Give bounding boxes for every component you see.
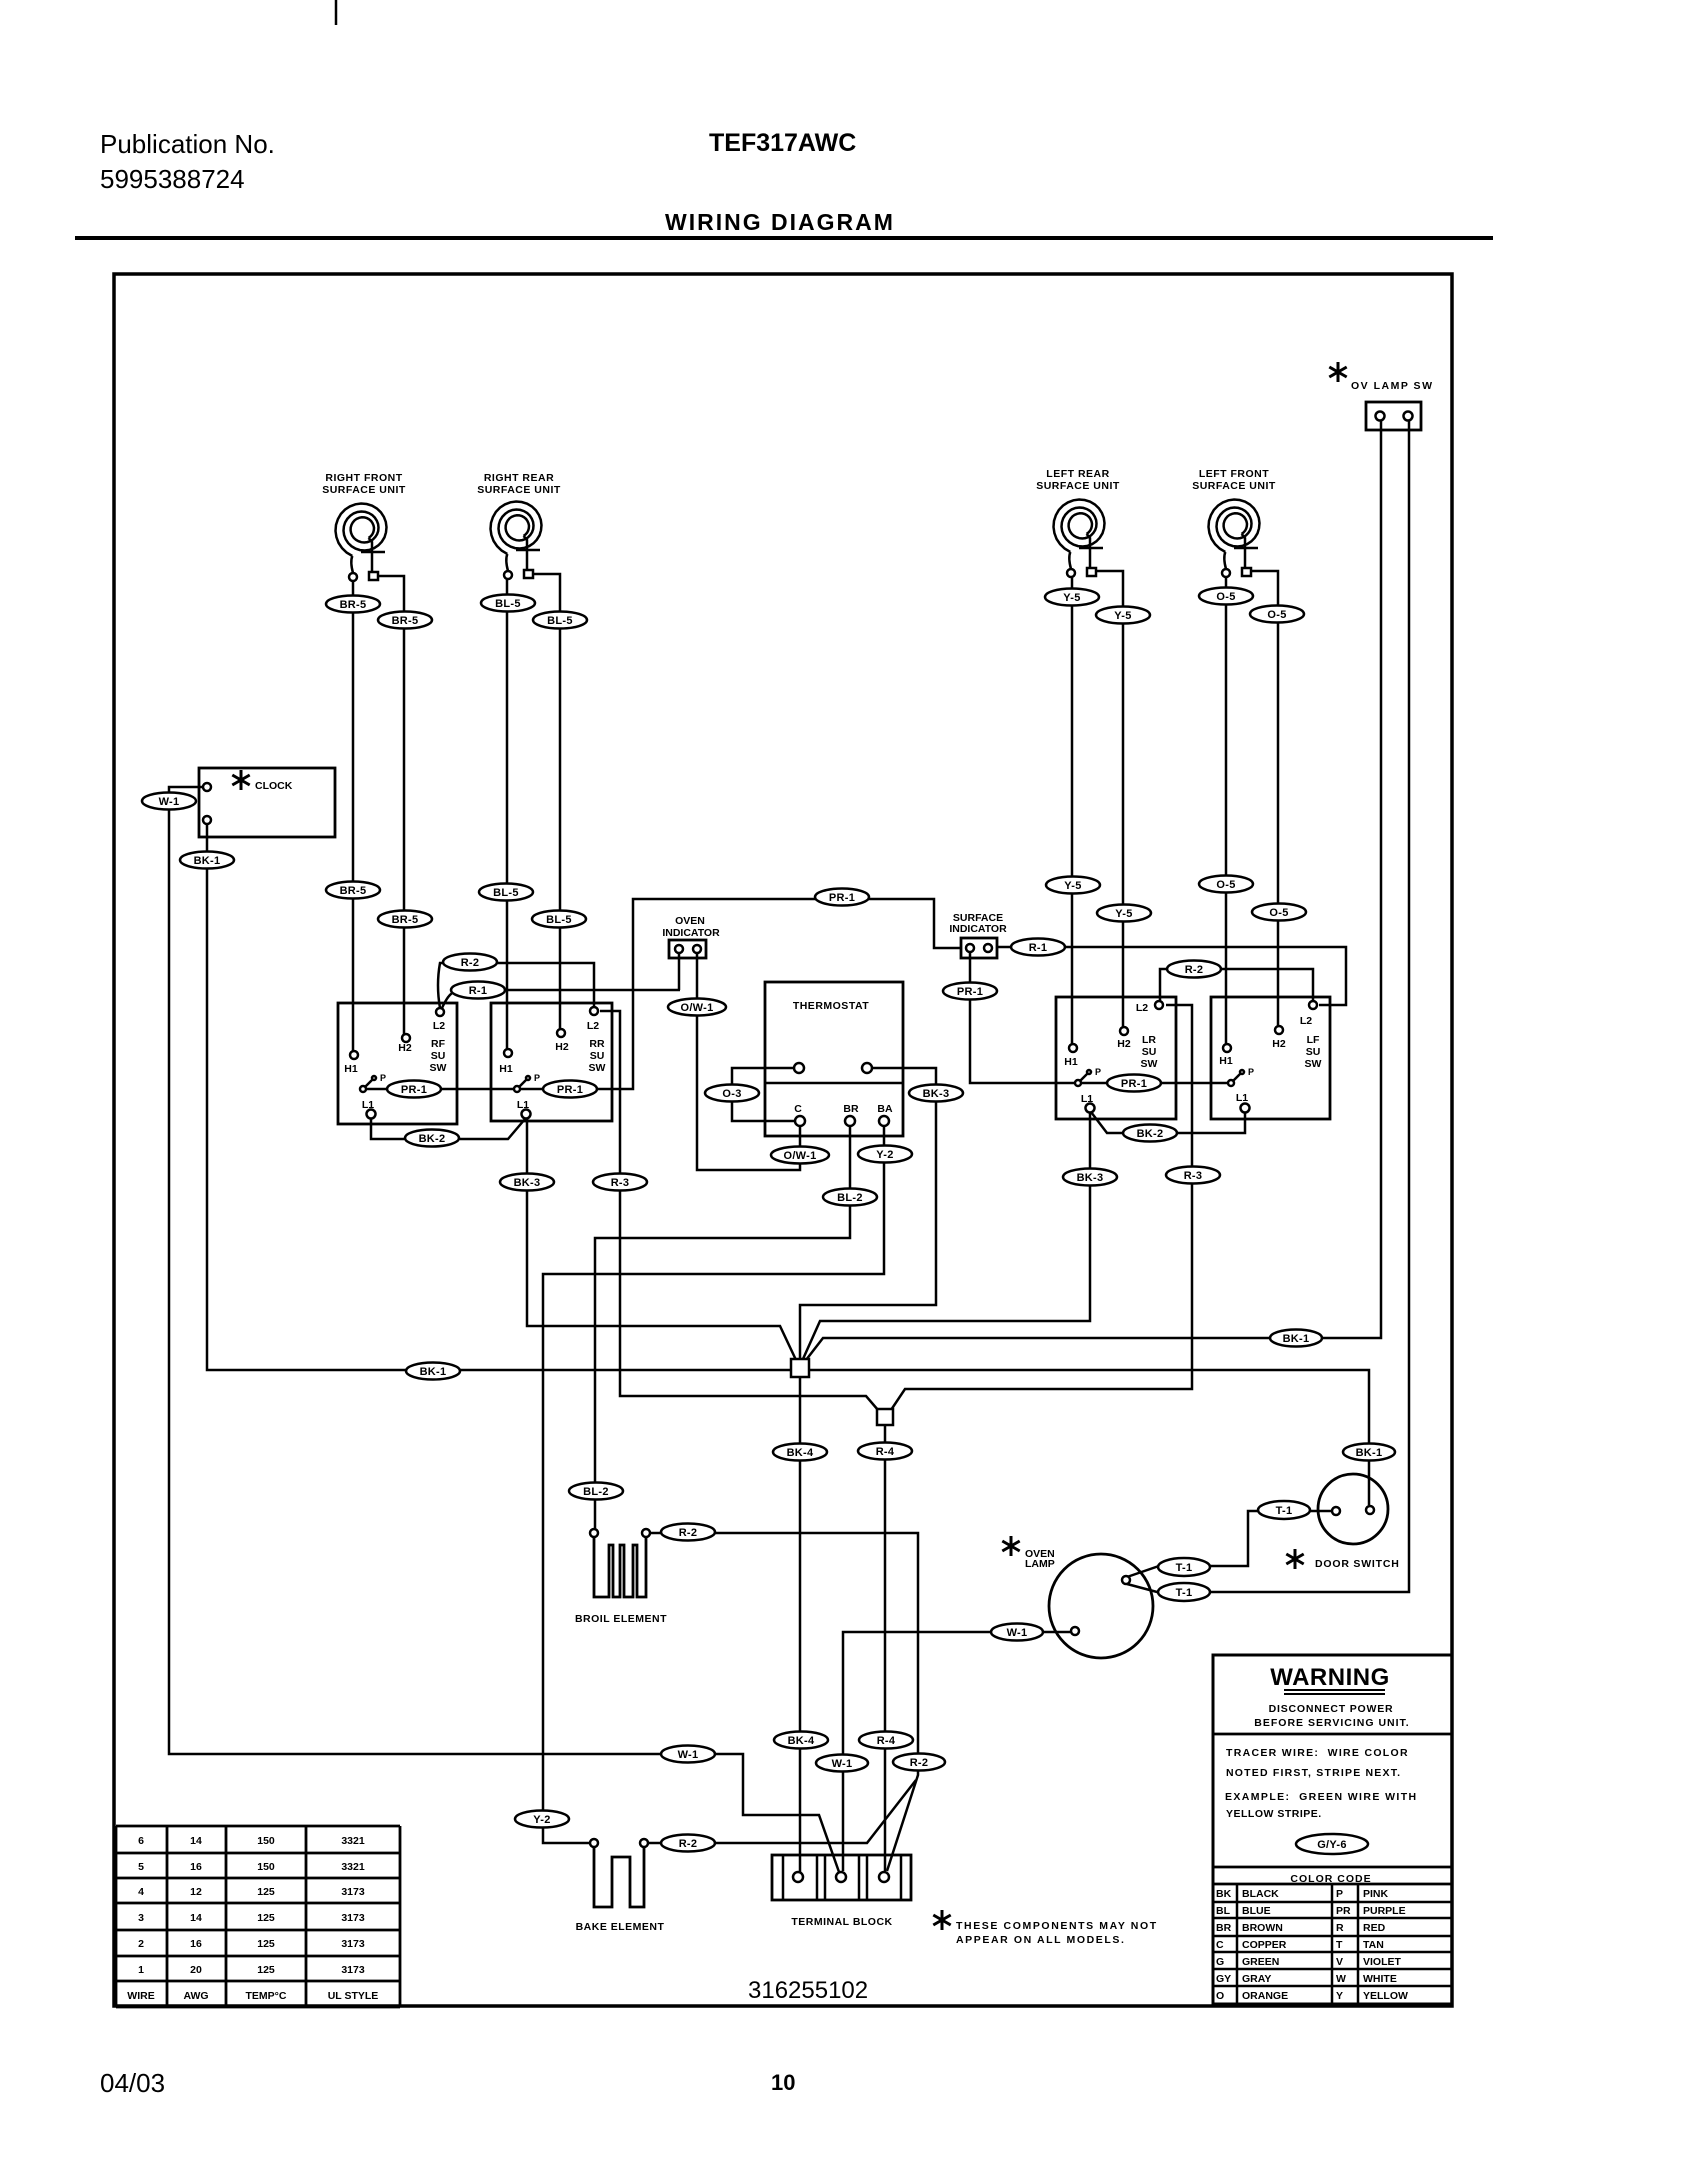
top tick — [335, 0, 338, 25]
svg-text:W-1: W-1 — [678, 1749, 699, 1761]
svg-text:RIGHT FRONT: RIGHT FRONT — [325, 472, 402, 484]
svg-text:6: 6 — [138, 1835, 144, 1847]
svg-text:BA: BA — [877, 1103, 893, 1115]
svg-text:BL-2: BL-2 — [837, 1192, 863, 1204]
svg-text:SW: SW — [589, 1062, 606, 1074]
wire label Y-2 — [515, 1811, 569, 1828]
svg-text:SW: SW — [1305, 1058, 1322, 1070]
svg-text:Y-2: Y-2 — [876, 1149, 893, 1161]
wire label R-4 — [858, 1443, 912, 1460]
svg-text:1: 1 — [138, 1964, 144, 1976]
svg-text:Y-2: Y-2 — [533, 1814, 550, 1826]
svg-text:APPEAR ON ALL MODELS.: APPEAR ON ALL MODELS. — [956, 1934, 1126, 1946]
wire label R-3 — [1166, 1167, 1220, 1184]
wire label BK-2 — [1123, 1125, 1177, 1142]
wire BL-5 RR unit H2 lead — [532, 574, 560, 1029]
wire label O-3 — [705, 1085, 759, 1102]
wire label R-2 — [661, 1524, 715, 1541]
wire BK-3 LR L1 down to junction — [803, 1112, 1090, 1359]
svg-text:GREEN: GREEN — [1242, 1956, 1279, 1968]
svg-text:14: 14 — [190, 1912, 202, 1924]
svg-text:T-1: T-1 — [1276, 1505, 1293, 1517]
svg-text:TEMP°C: TEMP°C — [246, 1990, 287, 2002]
wire label R-1 — [451, 982, 505, 999]
wire BL-2 thermostat BR to broil element — [595, 1126, 850, 1529]
svg-text:H2: H2 — [1117, 1038, 1131, 1050]
wire label O-5 — [1252, 904, 1306, 921]
wire oven indicator left terminal drop — [678, 954, 681, 990]
svg-text:L2: L2 — [1136, 1002, 1148, 1014]
svg-text:LEFT REAR: LEFT REAR — [1046, 468, 1109, 480]
svg-text:WHITE: WHITE — [1363, 1973, 1397, 1985]
svg-text:125: 125 — [257, 1964, 275, 1976]
svg-text:SU: SU — [431, 1050, 446, 1062]
wire BK-3 thermostat to junction — [800, 1068, 936, 1359]
note these components — [933, 1910, 1157, 1946]
wire gauge table — [116, 1826, 400, 2007]
svg-text:R-1: R-1 — [469, 985, 488, 997]
svg-text:BEFORE SERVICING UNIT.: BEFORE SERVICING UNIT. — [1254, 1717, 1409, 1729]
svg-text:O-5: O-5 — [1267, 609, 1286, 621]
svg-text:R-3: R-3 — [1184, 1170, 1203, 1182]
svg-text:PR-1: PR-1 — [957, 986, 983, 998]
wire BK-2 RF L1 to RR L1 — [371, 1118, 525, 1139]
svg-text:3321: 3321 — [341, 1861, 365, 1873]
svg-text:UL STYLE: UL STYLE — [328, 1990, 379, 2002]
svg-text:PR-1: PR-1 — [1121, 1078, 1147, 1090]
warning box — [1213, 1655, 1452, 2004]
ELLIPSE LABELS — [142, 588, 1395, 1855]
wire BR-5 RF unit H1 lead — [352, 581, 355, 1051]
wire label BR-5 — [326, 882, 380, 899]
wire BK-4 junction to terminal block — [799, 1377, 802, 1872]
svg-text:INDICATOR: INDICATOR — [949, 923, 1007, 935]
svg-text:Publication No.: Publication No. — [100, 129, 275, 159]
wire label BK-3 — [909, 1085, 963, 1102]
wire label Y-5 — [1046, 877, 1100, 894]
switch RF SU SW — [338, 1003, 457, 1124]
svg-text:SU: SU — [590, 1050, 605, 1062]
svg-text:GRAY: GRAY — [1242, 1973, 1271, 1985]
svg-text:BK-1: BK-1 — [420, 1366, 447, 1378]
svg-text:BLUE: BLUE — [1242, 1905, 1271, 1917]
svg-text:3173: 3173 — [341, 1964, 365, 1976]
bake element — [576, 1839, 665, 1933]
svg-text:04/03: 04/03 — [100, 2068, 165, 2098]
switch LR SU SW — [1056, 997, 1176, 1119]
thermostat — [765, 982, 903, 1136]
svg-text:SW: SW — [1141, 1058, 1158, 1070]
svg-text:BK-4: BK-4 — [788, 1735, 815, 1747]
svg-text:BR-5: BR-5 — [392, 615, 419, 627]
svg-text:H1: H1 — [1064, 1056, 1078, 1068]
svg-text:TRACER WIRE: WIRE COLOR: TRACER WIRE: WIRE COLOR — [1226, 1747, 1409, 1759]
wire R-2 LR L2 to LF L2 — [1160, 969, 1313, 1005]
switch LF SU SW — [1211, 997, 1330, 1119]
wire label O/W-1 — [771, 1147, 829, 1164]
svg-text:3173: 3173 — [341, 1938, 365, 1950]
wire label BK-2 — [405, 1130, 459, 1147]
svg-text:BK-4: BK-4 — [787, 1447, 814, 1459]
svg-text:C: C — [1216, 1939, 1224, 1951]
svg-text:P: P — [1248, 1067, 1254, 1077]
wire label BL-5 — [479, 884, 533, 901]
wire T-1 oven lamp to oven lamp switch right lead — [1127, 421, 1409, 1592]
svg-text:OV LAMP SW: OV LAMP SW — [1351, 380, 1433, 392]
oven indicator — [662, 915, 720, 958]
surface indicator — [949, 912, 1007, 958]
wire PR-1 surface indicator to right pilot rail — [970, 953, 1231, 1083]
svg-text:VIOLET: VIOLET — [1363, 1956, 1402, 1968]
svg-text:G: G — [1216, 1956, 1224, 1968]
svg-text:L2: L2 — [587, 1020, 599, 1032]
wire Y-2 thermostat BA to bake element — [543, 1126, 884, 1843]
svg-text:125: 125 — [257, 1912, 275, 1924]
svg-text:O/W-1: O/W-1 — [783, 1150, 816, 1162]
svg-text:OVEN: OVEN — [675, 915, 705, 927]
svg-text:LEFT FRONT: LEFT FRONT — [1199, 468, 1269, 480]
svg-text:TEF317AWC: TEF317AWC — [709, 129, 856, 157]
svg-text:125: 125 — [257, 1886, 275, 1898]
svg-text:TERMINAL BLOCK: TERMINAL BLOCK — [791, 1916, 892, 1928]
svg-text:BL-2: BL-2 — [583, 1486, 609, 1498]
svg-text:INDICATOR: INDICATOR — [662, 927, 720, 939]
svg-text:L2: L2 — [1300, 1015, 1312, 1027]
wire R-1 RF L2 to oven indicator — [442, 990, 680, 1008]
svg-text:L1: L1 — [1081, 1093, 1093, 1105]
svg-text:SW: SW — [430, 1062, 447, 1074]
wire BR-5 RF unit H2 lead — [378, 576, 404, 1034]
svg-text:SURFACE UNIT: SURFACE UNIT — [322, 484, 406, 496]
svg-text:WIRE: WIRE — [127, 1990, 154, 2002]
svg-text:W-1: W-1 — [832, 1758, 853, 1770]
wire label Y-5 — [1096, 607, 1150, 624]
svg-text:150: 150 — [257, 1835, 275, 1847]
svg-text:L1: L1 — [1236, 1092, 1248, 1104]
svg-text:BR-5: BR-5 — [340, 599, 367, 611]
wire label W-1 — [991, 1624, 1043, 1641]
svg-text:PURPLE: PURPLE — [1363, 1905, 1406, 1917]
svg-text:WARNING: WARNING — [1270, 1664, 1390, 1691]
svg-text:BK-3: BK-3 — [1077, 1172, 1104, 1184]
svg-text:RF: RF — [431, 1038, 446, 1050]
svg-text:W-1: W-1 — [159, 796, 180, 808]
svg-text:BR: BR — [843, 1103, 859, 1115]
wire label G/Y-6 — [1296, 1834, 1368, 1854]
wire label O/W-1 — [668, 999, 726, 1016]
surface unit coil RF — [336, 504, 387, 582]
svg-text:BL-5: BL-5 — [493, 887, 519, 899]
wire Y-5 LR unit H2 lead — [1096, 571, 1123, 1027]
wire R-4 junction 2 to terminal block — [884, 1425, 887, 1871]
wire label O-5 — [1250, 606, 1304, 623]
svg-text:14: 14 — [190, 1835, 202, 1847]
svg-text:RIGHT REAR: RIGHT REAR — [484, 472, 554, 484]
wire label PR-1 — [815, 889, 869, 906]
svg-text:BR-5: BR-5 — [392, 914, 419, 926]
wire label R-2 — [1167, 961, 1221, 978]
svg-text:R-2: R-2 — [910, 1757, 929, 1769]
svg-text:P: P — [380, 1073, 386, 1083]
svg-text:SURFACE UNIT: SURFACE UNIT — [1192, 480, 1276, 492]
wire BK-1 oven lamp switch left lead to junction — [806, 421, 1381, 1360]
svg-text:2: 2 — [138, 1938, 144, 1950]
svg-text:3: 3 — [138, 1912, 144, 1924]
svg-text:CLOCK: CLOCK — [255, 780, 293, 792]
svg-text:O-5: O-5 — [1269, 907, 1288, 919]
wire label BK-1 — [1270, 1330, 1322, 1347]
wire R-3 LR L2 down to junction 2 — [891, 1005, 1192, 1410]
wire label R-3 — [593, 1174, 647, 1191]
svg-text:SU: SU — [1142, 1046, 1157, 1058]
svg-text:H1: H1 — [1219, 1055, 1233, 1067]
wire label Y-5 — [1097, 905, 1151, 922]
wire BK-2 LR L1 to LF L1 — [1091, 1112, 1245, 1133]
svg-text:WIRING DIAGRAM: WIRING DIAGRAM — [665, 209, 895, 235]
wire label R-2 — [661, 1835, 715, 1852]
switch RR SU SW — [491, 1003, 612, 1121]
svg-text:O-5: O-5 — [1216, 879, 1235, 891]
wire label BK-1 — [180, 852, 234, 869]
svg-text:BK-3: BK-3 — [923, 1088, 950, 1100]
svg-text:BK-1: BK-1 — [1356, 1447, 1383, 1459]
svg-text:Y-5: Y-5 — [1063, 592, 1080, 604]
svg-text:GY: GY — [1216, 1973, 1231, 1985]
svg-text:BL-5: BL-5 — [547, 615, 573, 627]
svg-text:T-1: T-1 — [1176, 1587, 1193, 1599]
wire label T-1 — [1158, 1558, 1210, 1576]
junction block J2 — [877, 1409, 893, 1425]
svg-text:R: R — [1336, 1922, 1344, 1934]
svg-text:3173: 3173 — [341, 1912, 365, 1924]
svg-text:O-5: O-5 — [1216, 591, 1235, 603]
svg-text:H2: H2 — [555, 1041, 569, 1053]
svg-text:PR-1: PR-1 — [829, 892, 855, 904]
title underline — [75, 236, 1493, 240]
svg-text:DOOR SWITCH: DOOR SWITCH — [1315, 1558, 1400, 1570]
wire label R-2 — [443, 954, 497, 971]
wire label BR-5 — [378, 911, 432, 928]
wire R-3 RR L2 down to junction 2 — [600, 1011, 878, 1410]
oven lamp switch — [1329, 362, 1433, 430]
oven lamp — [1002, 1536, 1153, 1658]
wire label BK-4 — [774, 1732, 828, 1749]
wire O-5 LF unit H1 lead — [1225, 575, 1228, 1044]
svg-text:5: 5 — [138, 1861, 144, 1873]
svg-text:Y-5: Y-5 — [1115, 908, 1132, 920]
svg-text:C: C — [794, 1103, 802, 1115]
svg-text:150: 150 — [257, 1861, 275, 1873]
svg-text:5995388724: 5995388724 — [100, 164, 245, 194]
svg-text:125: 125 — [257, 1938, 275, 1950]
wire R-1 surface indicator to LF L2 — [997, 947, 1346, 1005]
wire label BL-2 — [823, 1189, 877, 1206]
svg-text:4: 4 — [138, 1886, 144, 1898]
wire label PR-1 — [943, 983, 997, 1000]
svg-text:G/Y-6: G/Y-6 — [1317, 1839, 1347, 1851]
svg-text:PR-1: PR-1 — [401, 1084, 427, 1096]
svg-text:T: T — [1336, 1939, 1343, 1951]
svg-text:W-1: W-1 — [1007, 1627, 1028, 1639]
svg-text:LR: LR — [1142, 1034, 1156, 1046]
svg-text:BK-2: BK-2 — [419, 1133, 446, 1145]
svg-text:L1: L1 — [362, 1099, 374, 1111]
wire label O-5 — [1199, 876, 1253, 893]
svg-text:SURFACE UNIT: SURFACE UNIT — [477, 484, 561, 496]
junction block J1 — [791, 1359, 809, 1377]
svg-text:SURFACE UNIT: SURFACE UNIT — [1036, 480, 1120, 492]
clock — [199, 768, 335, 837]
svg-text:TAN: TAN — [1363, 1939, 1384, 1951]
svg-text:12: 12 — [190, 1886, 202, 1898]
svg-text:THESE COMPONENTS MAY NOT: THESE COMPONENTS MAY NOT — [956, 1920, 1158, 1932]
svg-text:R-4: R-4 — [876, 1446, 895, 1458]
svg-text:P: P — [1095, 1067, 1101, 1077]
svg-text:BK-2: BK-2 — [1137, 1128, 1164, 1140]
svg-text:BR: BR — [1216, 1922, 1232, 1934]
wire label BK-3 — [500, 1174, 554, 1191]
wire label O-5 — [1199, 588, 1253, 605]
wire label BK-1 — [1343, 1444, 1395, 1461]
svg-text:3321: 3321 — [341, 1835, 365, 1847]
svg-text:O/W-1: O/W-1 — [680, 1002, 713, 1014]
svg-text:P: P — [534, 1073, 540, 1083]
svg-text:R-2: R-2 — [679, 1527, 698, 1539]
svg-text:COPPER: COPPER — [1242, 1939, 1287, 1951]
surface unit coil LR — [1054, 500, 1105, 578]
svg-text:3173: 3173 — [341, 1886, 365, 1898]
svg-text:R-3: R-3 — [611, 1177, 630, 1189]
broil element — [575, 1529, 667, 1625]
svg-text:BL-5: BL-5 — [546, 914, 572, 926]
wire label BK-3 — [1063, 1169, 1117, 1186]
svg-text:LAMP: LAMP — [1025, 1558, 1055, 1570]
svg-text:H1: H1 — [499, 1063, 513, 1075]
svg-text:BROIL ELEMENT: BROIL ELEMENT — [575, 1613, 667, 1625]
svg-text:R-1: R-1 — [1029, 942, 1048, 954]
wire label W-1 — [142, 793, 196, 810]
wire label R-4 — [859, 1732, 913, 1749]
svg-text:BROWN: BROWN — [1242, 1922, 1283, 1934]
svg-text:W: W — [1336, 1973, 1346, 1985]
svg-text:PR: PR — [1336, 1905, 1351, 1917]
wire label Y-5 — [1045, 589, 1099, 606]
svg-text:R-2: R-2 — [461, 957, 480, 969]
surface unit coil LF — [1209, 500, 1260, 578]
svg-text:PR-1: PR-1 — [557, 1084, 583, 1096]
svg-text:H2: H2 — [398, 1042, 412, 1054]
svg-text:H1: H1 — [344, 1063, 358, 1075]
svg-text:BAKE ELEMENT: BAKE ELEMENT — [576, 1921, 665, 1933]
wire label BL-5 — [481, 595, 535, 612]
wire label BK-1 — [406, 1363, 460, 1380]
svg-text:O: O — [1216, 1990, 1224, 2002]
svg-text:O-3: O-3 — [722, 1088, 741, 1100]
wire label W-1 — [816, 1755, 868, 1772]
svg-text:PINK: PINK — [1363, 1888, 1389, 1900]
svg-text:LF: LF — [1307, 1034, 1320, 1046]
svg-text:P: P — [1336, 1888, 1343, 1900]
wire W-1 clock to terminal block — [169, 787, 839, 1872]
wire R-2 broil element to terminal block — [650, 1533, 918, 1871]
wire label W-1 — [661, 1746, 715, 1763]
svg-text:BL: BL — [1216, 1905, 1231, 1917]
svg-text:SU: SU — [1306, 1046, 1321, 1058]
svg-text:DISCONNECT POWER: DISCONNECT POWER — [1269, 1703, 1394, 1715]
terminal block — [772, 1855, 911, 1928]
svg-text:16: 16 — [190, 1938, 202, 1950]
wire label BR-5 — [378, 612, 432, 629]
wire label PR-1 — [387, 1081, 441, 1098]
svg-text:BLACK: BLACK — [1242, 1888, 1279, 1900]
svg-text:RR: RR — [589, 1038, 605, 1050]
wire R-2 bake element joining — [648, 1780, 916, 1843]
svg-text:BK-3: BK-3 — [514, 1177, 541, 1189]
svg-text:ORANGE: ORANGE — [1242, 1990, 1288, 2002]
wire label BL-2 — [569, 1483, 623, 1500]
svg-text:H2: H2 — [1272, 1038, 1286, 1050]
wire T-1 oven lamp to door switch — [1127, 1511, 1332, 1577]
wire Y-5 LR unit H1 lead — [1071, 575, 1074, 1044]
svg-text:10: 10 — [771, 2070, 795, 2095]
wire label R-1 — [1011, 939, 1065, 956]
svg-text:L2: L2 — [433, 1020, 445, 1032]
wire BK-1 clock long horizontal to door switch — [207, 824, 1369, 1505]
svg-text:Y: Y — [1336, 1990, 1343, 2002]
wire O-5 LF unit H2 lead — [1252, 571, 1278, 1026]
wire R-2 RF L2 to RR L2 — [438, 963, 594, 1008]
svg-text:THERMOSTAT: THERMOSTAT — [793, 1000, 869, 1012]
svg-text:RED: RED — [1363, 1922, 1386, 1934]
svg-text:YELLOW STRIPE.: YELLOW STRIPE. — [1226, 1808, 1322, 1820]
svg-text:BL-5: BL-5 — [495, 598, 521, 610]
svg-text:V: V — [1336, 1956, 1343, 1968]
wire BL-5 RR unit H1 lead — [506, 579, 509, 1049]
wire label T-1 — [1258, 1501, 1310, 1519]
svg-text:316255102: 316255102 — [748, 1977, 868, 2004]
wire label T-1 — [1158, 1583, 1210, 1601]
wire O/W-1 oven indicator to thermostat C — [697, 954, 800, 1170]
wire label PR-1 — [1107, 1075, 1161, 1092]
svg-text:NOTED FIRST, STRIPE NEXT.: NOTED FIRST, STRIPE NEXT. — [1226, 1767, 1401, 1779]
diagram border — [114, 274, 1452, 2006]
svg-text:Y-5: Y-5 — [1114, 610, 1131, 622]
svg-text:R-2: R-2 — [1185, 964, 1204, 976]
door switch — [1286, 1474, 1399, 1570]
svg-text:T-1: T-1 — [1176, 1562, 1193, 1574]
wire label Y-2 — [858, 1146, 912, 1163]
svg-text:Y-5: Y-5 — [1064, 880, 1081, 892]
svg-text:BR-5: BR-5 — [340, 885, 367, 897]
wire label BL-5 — [533, 612, 587, 629]
wire label BK-4 — [773, 1444, 827, 1461]
surface unit coil RR — [491, 502, 542, 580]
wire label R-2 — [893, 1754, 945, 1771]
svg-text:BK-1: BK-1 — [1283, 1333, 1310, 1345]
svg-text:R-4: R-4 — [877, 1735, 896, 1747]
svg-text:EXAMPLE: GREEN WIRE WITH: EXAMPLE: GREEN WIRE WITH — [1225, 1791, 1418, 1803]
svg-text:L1: L1 — [517, 1099, 529, 1111]
wire label PR-1 — [543, 1081, 597, 1098]
svg-text:BK: BK — [1216, 1888, 1232, 1900]
svg-text:BK-1: BK-1 — [194, 855, 221, 867]
wire PR-1 pilot rail left to surface indicator — [366, 899, 961, 1089]
wire W-1 oven lamp to terminal block — [843, 1632, 1071, 1871]
svg-text:20: 20 — [190, 1964, 202, 1976]
wire BK-3 RR L1 down to junction — [527, 1119, 796, 1360]
wire label BL-5 — [532, 911, 586, 928]
svg-text:YELLOW: YELLOW — [1363, 1990, 1408, 2002]
